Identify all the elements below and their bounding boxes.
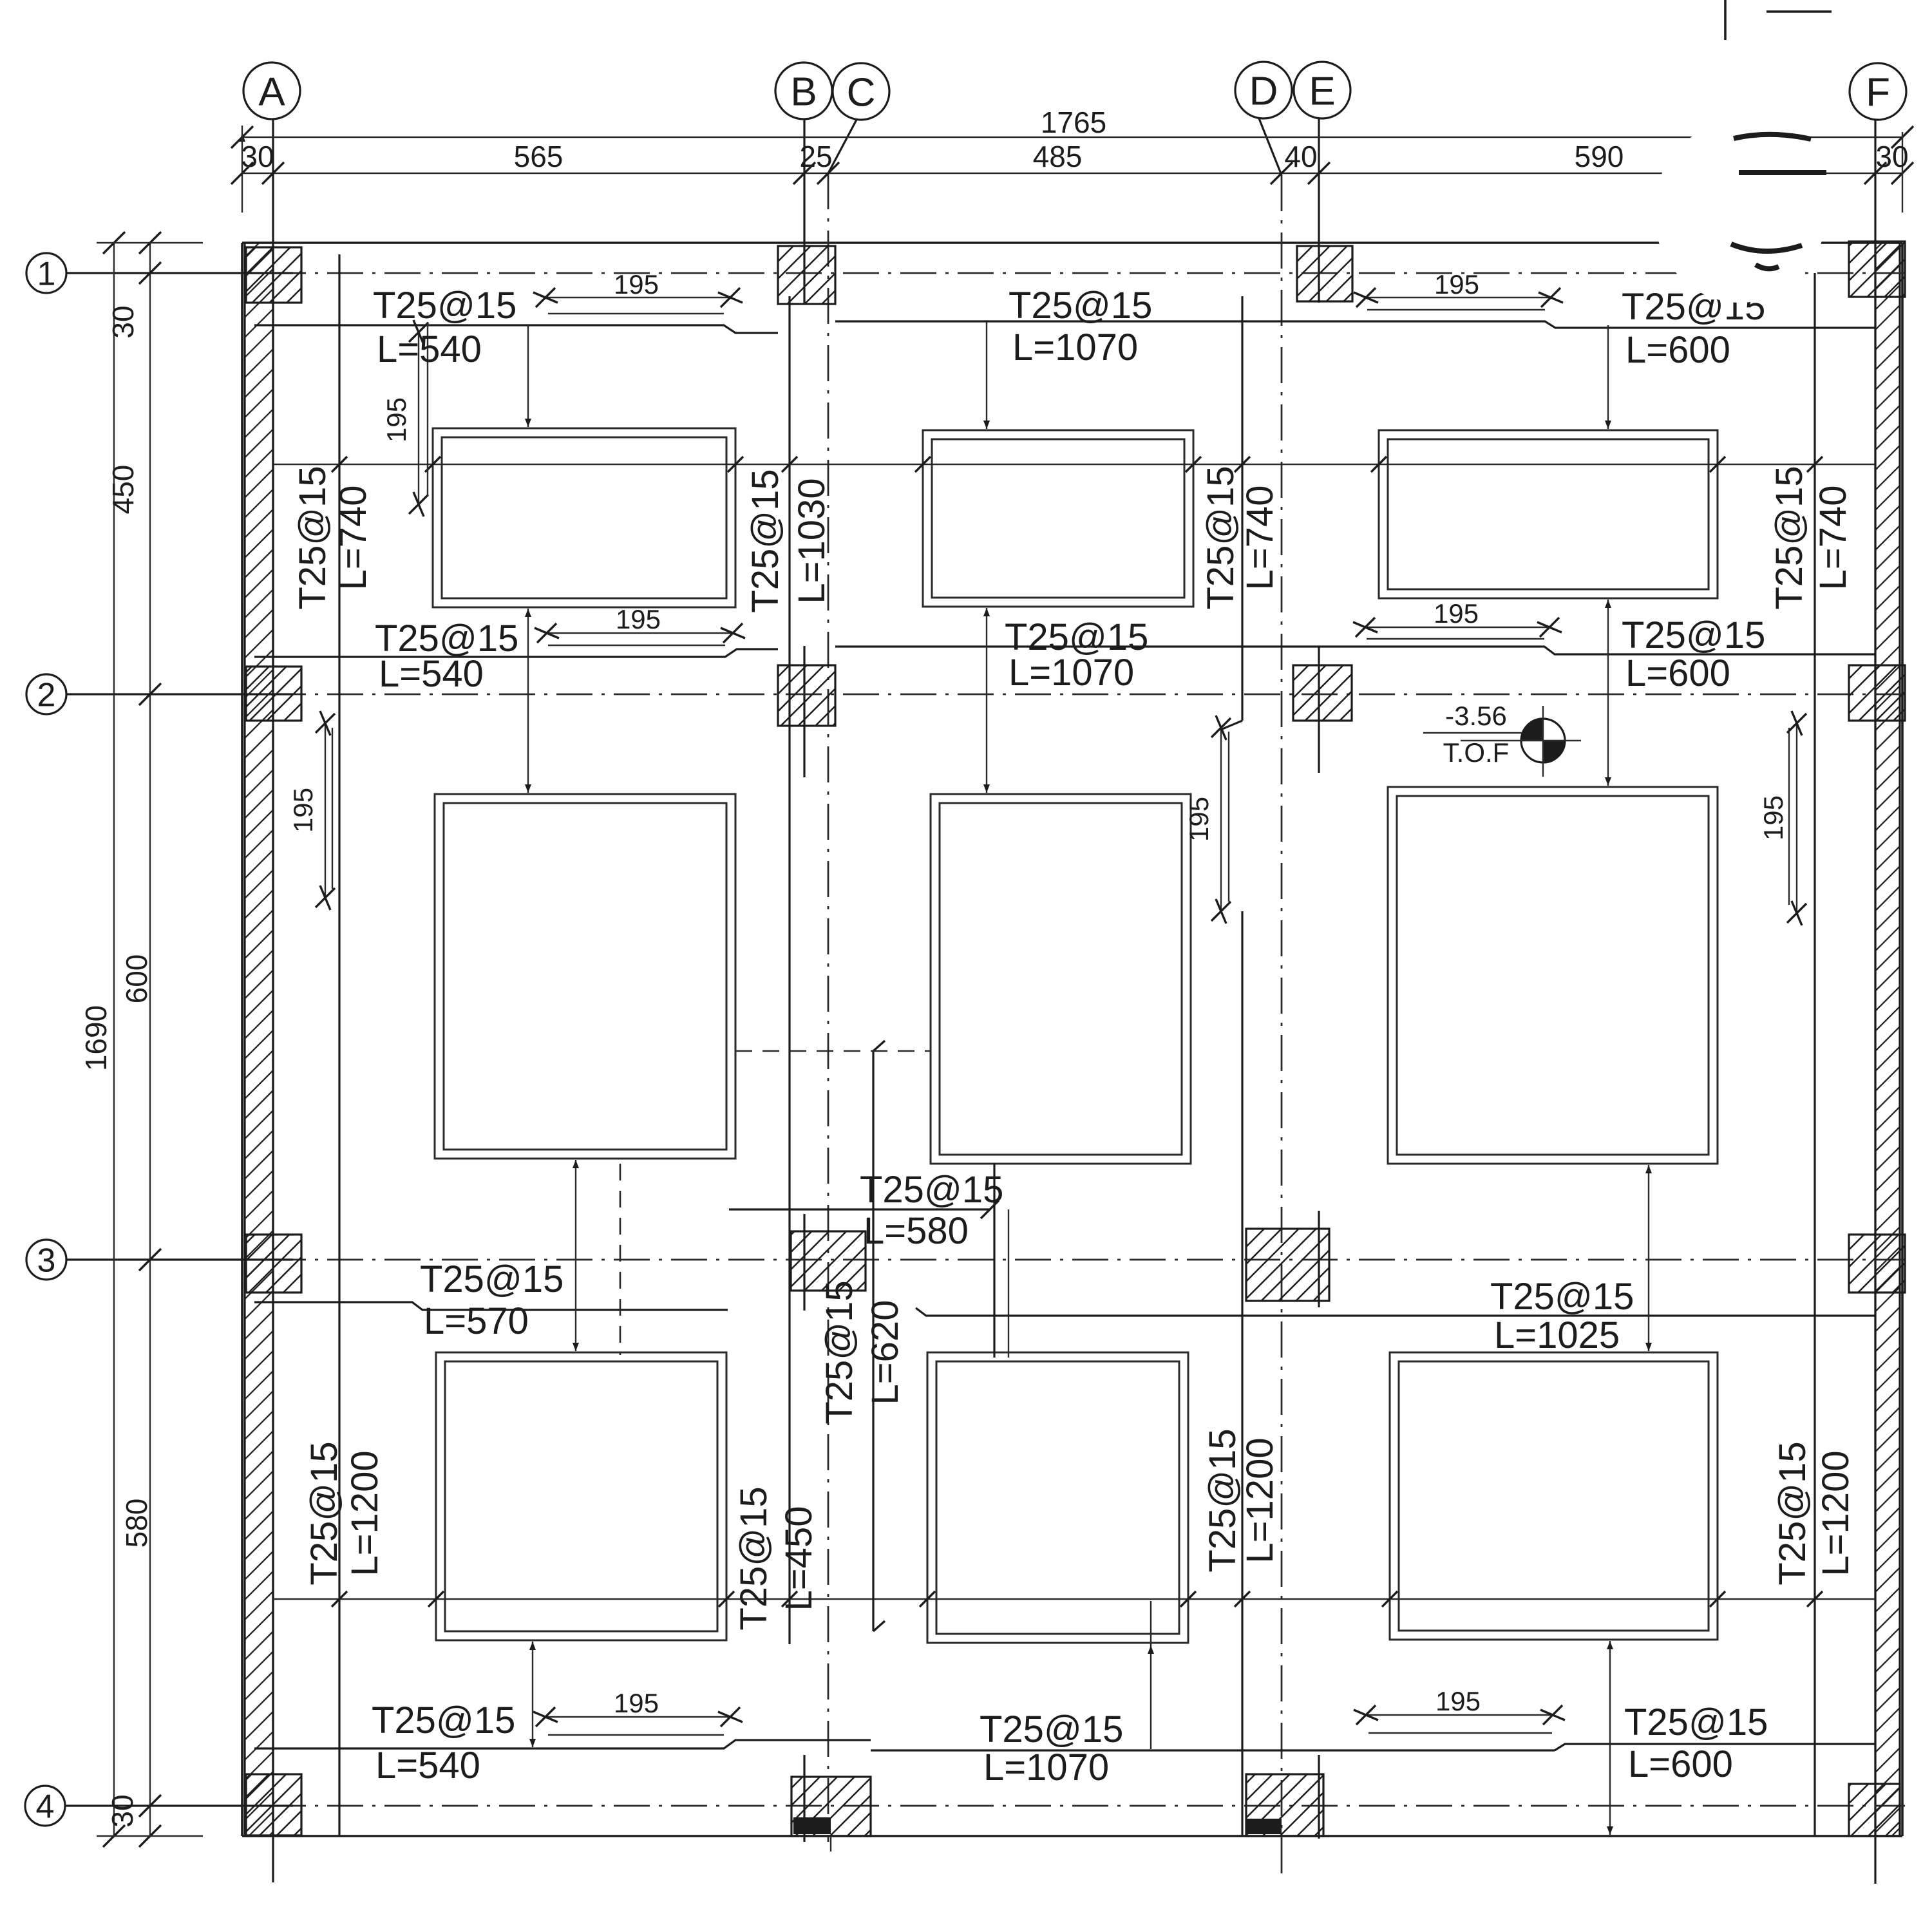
rebar bar line row4 middle (L=1070) (871, 1749, 1555, 1751)
rebar bar line row1 left (L=540) (254, 325, 778, 333)
column D/E-2 (hatched) (1293, 665, 1352, 721)
column F3 (hatched) (1849, 1235, 1905, 1293)
dashed strip line between rows 2-3 left (620, 1164, 621, 1355)
rebar bar line row4 left (L=540) (254, 1740, 871, 1748)
195 dimension row1 right bay (1366, 297, 1551, 298)
leader bubble 1 (66, 272, 293, 274)
svg-text:L=600: L=600 (1625, 329, 1730, 371)
svg-text:L=1025: L=1025 (1494, 1314, 1620, 1356)
footing row1 middle outer outline (923, 430, 1193, 607)
column D/E-4 (hatched) (1246, 1774, 1323, 1836)
vertical rebar line at wall A (T25@15 L=740/L=1200) (338, 254, 340, 1836)
raft outline top edge (242, 241, 1902, 244)
left wall (hatched strip) (245, 243, 273, 1836)
rebar bar line row2 mid+right (L=1070 / L=600) (835, 647, 1875, 654)
rebar bar line row3 left (L=570) (254, 1302, 728, 1310)
svg-text:L=1070: L=1070 (1009, 652, 1134, 694)
svg-text:T.O.F: T.O.F (1443, 737, 1510, 768)
svg-text:195: 195 (614, 1688, 659, 1718)
grid bubble A (243, 62, 300, 119)
grid line 4 (horizontal dash-dot) (213, 1805, 1905, 1807)
footing row2 right inner outline (1397, 796, 1709, 1155)
leader bubble 4 (65, 1804, 293, 1806)
grid stub below B/C-4 column (830, 1836, 831, 1851)
svg-text:L=580: L=580 (864, 1210, 969, 1252)
svg-text:30: 30 (106, 305, 140, 338)
svg-text:L=570: L=570 (424, 1300, 529, 1342)
svg-text:30: 30 (106, 1794, 139, 1827)
pointer line rows2-3 left (575, 1160, 576, 1351)
column D/E-3 (hatched) (1246, 1229, 1329, 1301)
column D/E-1 (hatched) (1297, 246, 1352, 301)
svg-text:565: 565 (514, 140, 563, 173)
rebar bar line row2 left (L=540) (254, 649, 778, 657)
level marker -3.56 T.O.F (1461, 706, 1581, 777)
svg-text:A: A (258, 70, 285, 114)
svg-text:580: 580 (120, 1499, 153, 1548)
rebar extent line row1 right (1367, 309, 1545, 310)
row line through footing row 3 (273, 1598, 1875, 1600)
rebar extent line row2 right (1367, 638, 1544, 639)
footing row3 middle outer outline (927, 1352, 1188, 1643)
grid bubble C (833, 63, 889, 120)
pointer line row1 middle footing top (986, 322, 987, 429)
leader bubble 3 (66, 1258, 293, 1260)
left overall dim line 1690 (113, 243, 115, 1836)
svg-text:195: 195 (1434, 269, 1479, 299)
extent line wall A bay2 (332, 728, 333, 889)
leader from bubble D to grid D (1259, 118, 1282, 175)
svg-text:T25@15: T25@15 (1772, 1441, 1814, 1585)
column A3 (hatched) (246, 1235, 301, 1293)
svg-text:195: 195 (616, 604, 661, 634)
footing row2 middle outer outline (931, 794, 1191, 1164)
footing row3 right inner outline (1399, 1361, 1709, 1631)
grid line F (vertical) (1874, 119, 1876, 1884)
extent line wall F bay2 (1788, 728, 1790, 905)
svg-text:L=600: L=600 (1625, 652, 1730, 694)
column F2 (hatched) (1849, 665, 1905, 721)
svg-text:L=620: L=620 (864, 1300, 906, 1405)
level underline (1423, 732, 1522, 734)
border remnant horizontal (top right) (1766, 10, 1832, 13)
left chain dim line (149, 243, 151, 1836)
svg-text:T25@15: T25@15 (1624, 1701, 1768, 1743)
pointer line rows3-4 left (532, 1642, 533, 1747)
svg-text:T25@15: T25@15 (733, 1486, 775, 1630)
column B/C-4 (hatched) (791, 1777, 871, 1836)
svg-text:E: E (1309, 69, 1335, 113)
svg-text:L=740: L=740 (1812, 486, 1854, 591)
footing row2 middle inner outline (940, 803, 1182, 1155)
svg-text:2: 2 (37, 677, 56, 714)
svg-text:590: 590 (1575, 140, 1624, 173)
svg-text:T25@15: T25@15 (420, 1258, 563, 1300)
svg-text:D: D (1249, 69, 1278, 113)
svg-text:T25@15: T25@15 (1200, 466, 1242, 609)
column B/C-1 (hatched) (778, 246, 835, 304)
195 dimension wall A bay1 (vertical) (418, 332, 419, 504)
svg-text:195: 195 (1758, 795, 1788, 840)
svg-text:T25@15: T25@15 (980, 1709, 1123, 1750)
svg-text:L=540: L=540 (379, 653, 484, 695)
leader from bubble C to grid C (828, 120, 857, 173)
footing row1 middle inner outline (932, 439, 1184, 598)
svg-text:T25@15: T25@15 (303, 1441, 345, 1585)
rebar bar line row4 right (L=600) (1555, 1744, 1875, 1750)
svg-text:4: 4 (36, 1788, 55, 1826)
column A2 (hatched) (246, 667, 301, 721)
column A4 (hatched) (246, 1774, 301, 1835)
rebar bar line row1 mid+right (L=1070 / L=600) (835, 321, 1875, 328)
svg-text:T25@15: T25@15 (373, 285, 516, 327)
footing row2 left outer outline (435, 794, 735, 1159)
grid bubble 4 (25, 1786, 65, 1826)
svg-text:L=1070: L=1070 (1012, 327, 1138, 368)
svg-text:L=740: L=740 (332, 486, 374, 591)
footing row3 right outer outline (1390, 1352, 1718, 1640)
grid bubble 3 (26, 1240, 66, 1280)
vertical rebar line pair T25@15 L=580 (993, 1163, 995, 1358)
svg-text:450: 450 (106, 465, 140, 515)
svg-text:T25@15: T25@15 (292, 466, 334, 609)
grid line 1 (horizontal dash-dot) (213, 272, 1905, 274)
watermark fragment arc top (1734, 135, 1811, 139)
footing row1 right inner outline (1388, 439, 1709, 589)
rebar extent line row4 left (548, 1734, 724, 1736)
footing row1 left inner outline (442, 437, 726, 598)
svg-text:T25@15: T25@15 (819, 1280, 860, 1424)
grid bubble 2 (26, 674, 66, 714)
grid line C (vertical dash-dot) (828, 173, 829, 1842)
column F1 (hatched) (1849, 241, 1905, 297)
svg-text:F: F (1866, 70, 1890, 115)
pointer line rows3-4 middle (1150, 1601, 1151, 1749)
vertical rebar line at B (T25@15 L=1030/L=450) (788, 296, 790, 1644)
svg-text:B: B (790, 70, 817, 114)
extent line wall A bay1 (427, 322, 428, 496)
pointer line rows1-2 left (527, 609, 529, 793)
svg-text:30: 30 (241, 140, 274, 173)
column B/C-2 (hatched) (778, 665, 835, 726)
svg-text:600: 600 (120, 954, 153, 1004)
grid bubble B (775, 62, 832, 119)
195 dimension row2 right bay (1365, 627, 1549, 628)
svg-text:L=450: L=450 (778, 1506, 820, 1611)
pointer line rows2-3 right (1648, 1165, 1649, 1351)
extent line grid E bay2 (1228, 732, 1229, 902)
top dimension line total 1765 (242, 137, 1902, 138)
pointer line rows1-2 middle (986, 608, 987, 793)
column A1 (hatched) (246, 247, 301, 303)
svg-text:30: 30 (1875, 140, 1908, 173)
svg-text:T25@15: T25@15 (1202, 1428, 1244, 1572)
column D/E-4 thick base line (1247, 1819, 1282, 1834)
195 dimension row4 left bay (545, 1716, 730, 1718)
watermark blob (white) (1654, 121, 1826, 303)
vertical rebar line at wall F (T25@15 L=740/L=1200) (1814, 273, 1815, 1836)
grid line 2 (horizontal dash-dot) (213, 694, 1905, 696)
svg-text:L=540: L=540 (377, 328, 482, 370)
svg-text:L=540: L=540 (375, 1745, 480, 1786)
svg-text:C: C (847, 70, 876, 115)
svg-text:T25@15: T25@15 (1768, 466, 1810, 609)
svg-text:L=1070: L=1070 (983, 1747, 1109, 1788)
grid line A (vertical) (272, 119, 274, 1882)
vertical rebar line at E (T25@15 L=740/L=1200) (1241, 296, 1243, 721)
footing row3 left inner outline (445, 1361, 717, 1631)
grid line D (vertical dash-dot) (1281, 175, 1283, 1880)
column F4 (hatched) (1849, 1784, 1900, 1836)
svg-text:L=1200: L=1200 (344, 1450, 386, 1576)
pointer line row1 right footing top (1607, 325, 1609, 429)
svg-text:1765: 1765 (1041, 106, 1106, 139)
svg-text:195: 195 (288, 788, 318, 833)
top dim extension stubs (241, 126, 243, 213)
grid line B (vertical) (803, 119, 805, 304)
column B/C-4 thick base line (793, 1817, 831, 1834)
svg-text:195: 195 (614, 269, 659, 299)
svg-text:T25@15: T25@15 (860, 1169, 1003, 1211)
watermark fragment mid line (1739, 170, 1826, 175)
svg-text:L=600: L=600 (1628, 1743, 1733, 1785)
svg-text:195: 195 (1434, 598, 1479, 629)
svg-text:-3.56: -3.56 (1445, 701, 1507, 731)
footing row3 left outer outline (436, 1352, 726, 1640)
195 dimension row4 right bay (1366, 1714, 1553, 1716)
footing row3 middle inner outline (936, 1361, 1179, 1634)
column B/C-3 (hatched) (791, 1231, 866, 1291)
rebar extent line row1 left (548, 313, 724, 314)
right wall (hatched strip) (1875, 243, 1900, 1836)
dashed strip line between row2 footings (735, 1050, 931, 1052)
raft outline right edge (1901, 243, 1904, 1836)
footing row1 right outer outline (1379, 430, 1718, 598)
svg-text:L=1200: L=1200 (1815, 1450, 1857, 1576)
svg-text:T25@15: T25@15 (1622, 614, 1765, 656)
pointer line rows3-4 right (1609, 1641, 1611, 1835)
watermark fragment arc bottom (1731, 244, 1802, 251)
rebar extent line row4 right (1368, 1732, 1552, 1734)
rebar bar line row3 right (L=1025) (916, 1308, 1875, 1316)
svg-text:1690: 1690 (79, 1005, 113, 1071)
watermark fragment small arc (1756, 265, 1779, 269)
195 dimension wall A bay2 (vertical) (325, 723, 326, 898)
195 dimension wall F bay2 (vertical) (1796, 723, 1797, 913)
pointer line rows1-2 right (1607, 600, 1609, 786)
195 dimension row2 left bay (547, 632, 733, 634)
top dimension chain line (242, 173, 1902, 174)
svg-text:195: 195 (381, 397, 412, 442)
footing row2 right outer outline (1388, 787, 1718, 1164)
195 dimension grid E bay2 (vertical) (1220, 728, 1222, 911)
border remnant vertical (top) (1724, 0, 1727, 40)
footing row1 left outer outline (433, 428, 735, 607)
row line through footing row 1 (273, 464, 1875, 465)
grid bubble 1 (26, 253, 66, 293)
pointer line row1 left footing top (527, 325, 529, 427)
svg-text:T25@15: T25@15 (744, 469, 786, 612)
grid line E (vertical) (1318, 119, 1320, 303)
grid line 3 (horizontal dash-dot) (213, 1259, 1905, 1261)
grid bubble D (1235, 62, 1292, 118)
svg-text:25: 25 (799, 140, 832, 173)
svg-text:L=740: L=740 (1239, 486, 1281, 591)
svg-text:485: 485 (1033, 140, 1083, 173)
raft outline bottom edge (242, 1835, 1902, 1837)
rebar extent line row2 left (548, 645, 725, 646)
left dim extension stubs (97, 242, 203, 243)
footing row2 left inner outline (444, 803, 726, 1150)
195 dimension row1 left bay (545, 297, 730, 298)
vertical rebar line T25@15 L=620 (872, 1051, 874, 1631)
svg-text:L=1200: L=1200 (1239, 1437, 1281, 1563)
svg-text:1: 1 (37, 256, 56, 293)
svg-text:3: 3 (37, 1242, 56, 1280)
grid bubble F (1850, 63, 1906, 120)
svg-text:195: 195 (1184, 797, 1214, 842)
svg-text:T25@15: T25@15 (1009, 285, 1152, 327)
svg-text:T25@15: T25@15 (1490, 1276, 1634, 1318)
svg-text:195: 195 (1435, 1686, 1481, 1716)
svg-text:40: 40 (1284, 140, 1317, 173)
svg-text:L=1030: L=1030 (791, 478, 833, 603)
svg-text:T25@15: T25@15 (372, 1700, 515, 1741)
rebar bar line T25@15 L=580 (729, 1208, 990, 1210)
grid bubble E (1294, 62, 1350, 118)
leader bubble 2 (66, 693, 293, 695)
raft outline left edge (241, 243, 243, 1836)
